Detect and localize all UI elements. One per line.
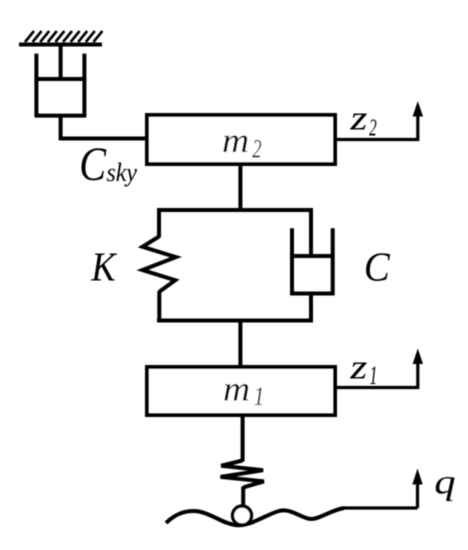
svg-text:C: C bbox=[364, 244, 390, 290]
svg-text:q: q bbox=[434, 463, 455, 502]
svg-text:C: C bbox=[79, 138, 106, 191]
svg-text:2: 2 bbox=[369, 115, 377, 141]
svg-text:m: m bbox=[223, 369, 250, 408]
svg-text:z: z bbox=[349, 348, 367, 387]
svg-text:z: z bbox=[349, 99, 367, 138]
svg-text:m: m bbox=[222, 121, 249, 160]
svg-text:1: 1 bbox=[369, 361, 377, 390]
svg-text:2: 2 bbox=[252, 134, 261, 163]
svg-text:K: K bbox=[90, 246, 117, 290]
svg-text:sky: sky bbox=[107, 159, 138, 187]
svg-text:1: 1 bbox=[254, 383, 265, 412]
